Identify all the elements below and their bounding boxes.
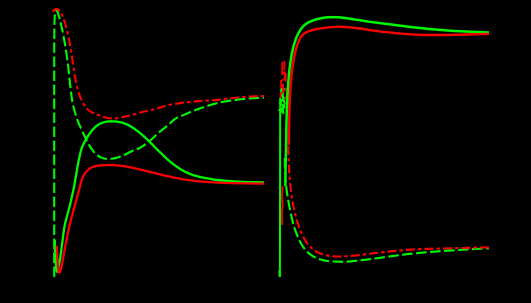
right panel: red zigzag near axis (upper) (281, 62, 285, 98)
right panel: green zigzag near axis top (280, 88, 285, 112)
left panel: red dash-dot curve (upper) (53, 9, 264, 119)
right panel: red dash-dot curve (lower) (288, 146, 489, 257)
right panel: green solid vertical spike at axis (279, 98, 281, 277)
right panel: red zigzag near axis (mid) (286, 88, 288, 113)
left panel: green dashed curve (resonance spike + valley) (54, 10, 264, 277)
right panel: red solid curve (upper, below green) (289, 27, 489, 145)
right panel: green dashed curve (lower) (285, 158, 489, 262)
left panel: red solid curve (V + low hump) (57, 165, 264, 273)
right panel: red jagged strand (lower) (281, 186, 284, 225)
left panel: green solid curve (V + hump) (55, 121, 264, 272)
right panel: green solid curve (upper) (285, 17, 489, 186)
